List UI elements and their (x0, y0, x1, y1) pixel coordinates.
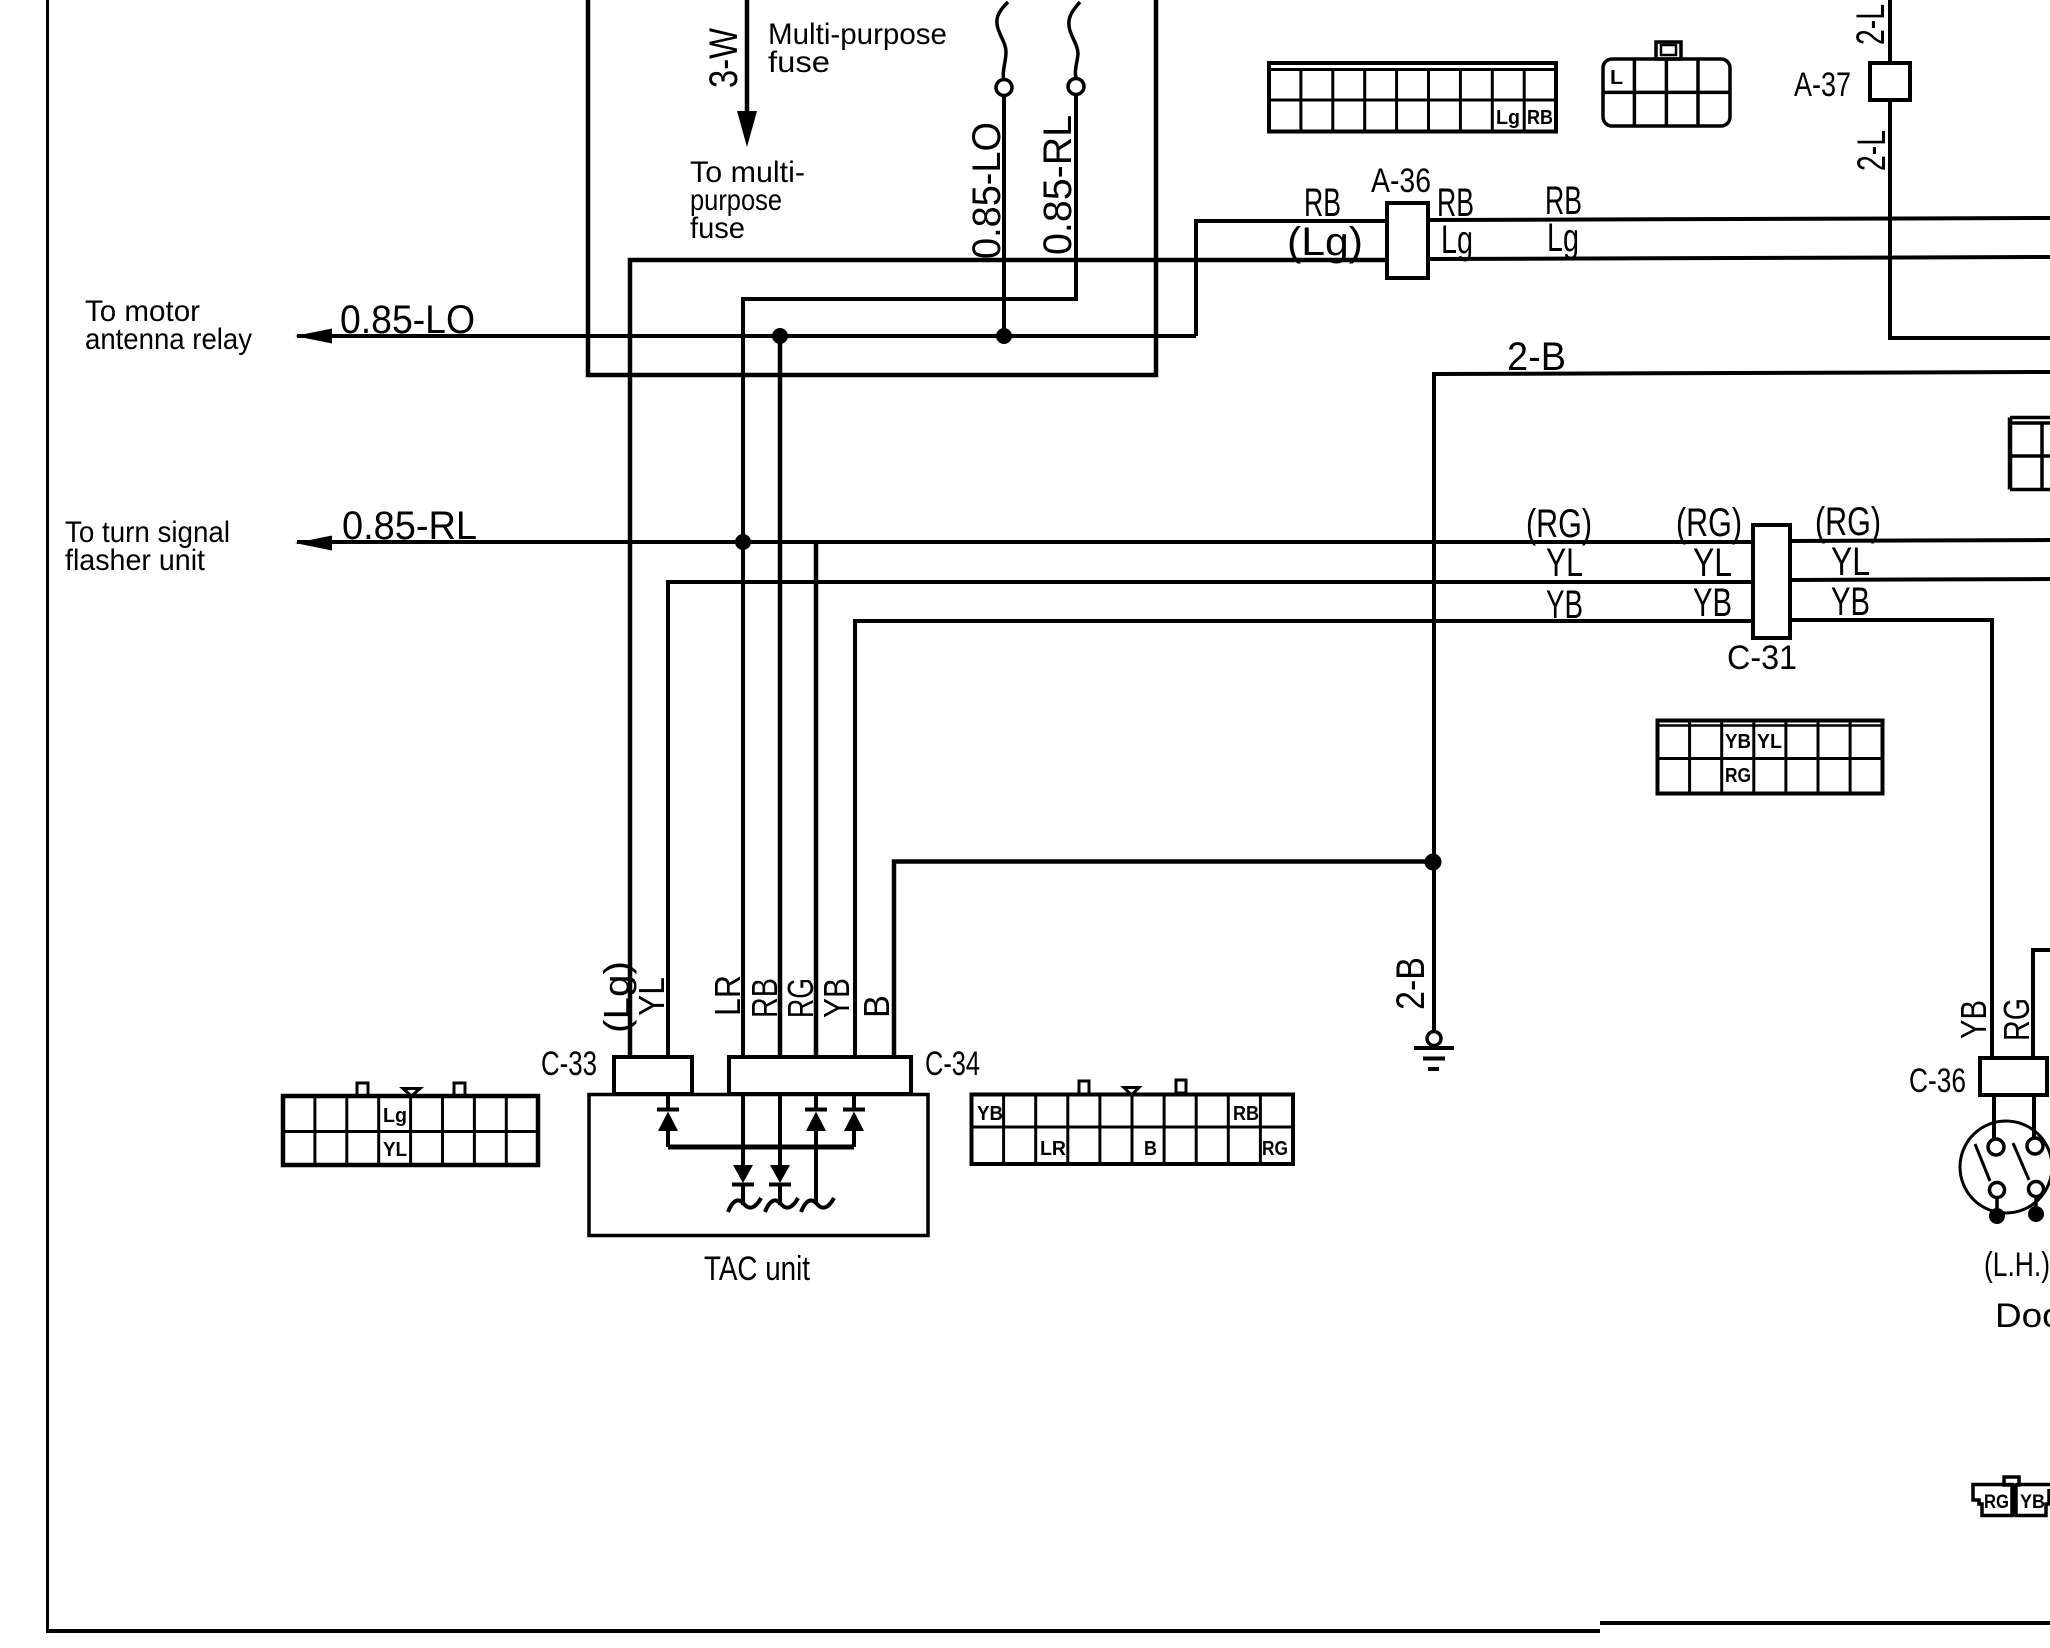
svg-text:C-34: C-34 (925, 1045, 980, 1083)
svg-text:C-33: C-33 (541, 1045, 597, 1083)
connector A-36 (1387, 203, 1428, 278)
svg-text:RG: RG (1996, 998, 2037, 1041)
svg-text:3-W: 3-W (702, 28, 746, 88)
svg-text:YB: YB (1725, 731, 1751, 753)
wire 0.85-LO horizontal to motor antenna relay (297, 334, 1196, 338)
page border left (46, 0, 49, 1632)
diode D3 (YB, up) (843, 1094, 865, 1147)
svg-text:YL: YL (383, 1139, 407, 1161)
svg-text:YL: YL (1546, 541, 1583, 585)
wire 2-L below A-37 (1890, 100, 2050, 338)
connector small RG/YB (bottom right) (1973, 1477, 2050, 1516)
wire 0.85-RL vertical and jog left (743, 95, 1076, 1057)
svg-text:YB: YB (1693, 581, 1732, 625)
svg-text:(RG): (RG) (1815, 500, 1881, 544)
svg-text:Lg: Lg (383, 1105, 407, 1127)
svg-text:A-36: A-36 (1371, 162, 1431, 200)
svg-text:0.85-RL: 0.85-RL (1036, 115, 1080, 255)
wire 0.85-LO fuse tail (wavy) (997, 2, 1008, 78)
door switch stems and dots (1995, 1197, 1999, 1211)
svg-text:Door: Door (1995, 1297, 2050, 1335)
door switch circle (1960, 1121, 2050, 1213)
wire 2-B horizontal to B pin (894, 862, 1434, 1058)
arrow to motor antenna relay (295, 329, 332, 344)
svg-text:Lg: Lg (1547, 216, 1579, 260)
connector C-33 (614, 1057, 692, 1094)
diode D4 (LR, down) (728, 1094, 761, 1212)
svg-text:YB: YB (1831, 580, 1870, 624)
svg-text:L: L (1610, 67, 1623, 89)
svg-text:2-L: 2-L (1849, 4, 1893, 45)
svg-text:LR: LR (1040, 1138, 1067, 1160)
svg-text:fuse: fuse (768, 46, 830, 79)
svg-text:Lg: Lg (1441, 218, 1473, 262)
svg-text:RB: RB (1527, 107, 1553, 129)
connector grid right edge (partial) (2010, 418, 2050, 490)
wire 0.85-LO vertical (1002, 96, 1006, 336)
connector C-34 (729, 1057, 911, 1094)
wire RB vertical to C-34 (778, 336, 783, 1057)
wire YL horizontal (668, 582, 1753, 1057)
wire 0.85-RL fuse tail (wavy) (1069, 2, 1080, 78)
svg-text:TAC unit: TAC unit (704, 1250, 810, 1288)
junction dot 2-B (1425, 854, 1442, 871)
wire RB riser to A-36 (1196, 221, 1387, 336)
svg-text:YB: YB (977, 1103, 1003, 1125)
junction dot 0.85-LO (996, 328, 1012, 344)
wire YB from C-31 down to C-36 (1790, 620, 1992, 1058)
connector rounded (top, L) (1603, 42, 1730, 126)
wire 3-W feed U-loop (588, 0, 1156, 375)
svg-text:RB: RB (1304, 181, 1341, 225)
connector C-36 (1980, 1058, 2047, 1095)
svg-text:LR: LR (707, 975, 748, 1016)
wire 2-B down to ground (1432, 861, 1436, 1031)
svg-text:2-B: 2-B (1389, 957, 1433, 1010)
wire RB from A-36 to right edge (1428, 218, 2050, 220)
svg-text:YB: YB (816, 978, 857, 1018)
wire (RG)/0.85-RL horizontal (297, 540, 1753, 544)
TAC unit box (589, 1095, 928, 1236)
svg-text:2-B: 2-B (1507, 335, 1566, 379)
wire (Lg) horizontal to A-36 (630, 260, 1387, 1057)
connector grid top (2x9) (1269, 63, 1556, 132)
wire diode bus (668, 1145, 854, 1150)
svg-text:RB: RB (744, 978, 785, 1018)
svg-text:Lg: Lg (1496, 107, 1520, 129)
svg-text:0.85-LO: 0.85-LO (965, 122, 1009, 259)
svg-text:YL: YL (1757, 731, 1782, 753)
svg-text:(RG): (RG) (1526, 502, 1592, 546)
door switch contact circles (1988, 1139, 2004, 1155)
svg-text:0.85-LO: 0.85-LO (340, 298, 475, 342)
svg-text:2-L: 2-L (1850, 130, 1894, 171)
svg-text:flasher unit: flasher unit (65, 544, 206, 577)
door switch pins from C-36 (1992, 1095, 1996, 1139)
terminal circle 0.85-LO (996, 80, 1012, 96)
svg-text:C-36: C-36 (1909, 1062, 1966, 1100)
wire 3-W arrow to multi-purpose fuse (745, 0, 750, 113)
connector C-31 pin grid (2x7) (1658, 721, 1883, 794)
svg-text:fuse: fuse (690, 212, 745, 245)
svg-text:RG: RG (1262, 1138, 1288, 1160)
svg-text:A-37: A-37 (1794, 66, 1851, 104)
svg-text:B: B (856, 995, 897, 1018)
arrow to turn signal flasher unit (295, 536, 332, 551)
wire 2-L above A-37 (1888, 0, 1892, 63)
wire RG squiggle end (801, 1198, 834, 1212)
page border bottom (46, 1629, 1600, 1633)
svg-text:YB: YB (1953, 1000, 1994, 1039)
svg-text:(RG): (RG) (1676, 501, 1742, 545)
wire YB horizontal (855, 621, 1753, 1057)
svg-text:RG: RG (1725, 765, 1751, 787)
diode D5 (RB, down) (765, 1094, 798, 1212)
junction dot RB feed (772, 328, 788, 344)
svg-text:antenna relay: antenna relay (85, 323, 252, 356)
svg-text:RG: RG (780, 978, 821, 1018)
diode D1 (YL, up) (657, 1094, 679, 1147)
svg-text:YL: YL (1831, 540, 1870, 584)
wire Lg from A-36 to right edge (1428, 257, 2050, 259)
junction dot LR (735, 534, 751, 550)
svg-text:YL: YL (1693, 541, 1732, 585)
svg-text:YL: YL (631, 977, 672, 1016)
connector A-37 (1870, 63, 1910, 100)
wire 2-B top horizontal (1434, 372, 2050, 861)
connector C-31 (1753, 525, 1790, 638)
ground (1427, 1032, 1441, 1046)
svg-text:RB: RB (1233, 1103, 1259, 1125)
svg-text:RG: RG (1984, 1492, 2009, 1513)
svg-text:C-31: C-31 (1727, 639, 1797, 677)
diode D2 (RG, up) (805, 1094, 827, 1202)
terminal circle 0.85-RL (1068, 79, 1084, 95)
door switch blades (1975, 1144, 1990, 1181)
wire RG vertical to C-34 (814, 542, 819, 1057)
svg-text:0.85-RL: 0.85-RL (342, 504, 477, 548)
wire RG right to C-36 (2033, 950, 2050, 1058)
connector grid bottom-left (2x8) (283, 1083, 538, 1165)
connector C-34 pin grid (2x10) (972, 1080, 1294, 1164)
svg-text:B: B (1144, 1138, 1157, 1160)
svg-text:YB: YB (1546, 583, 1583, 627)
svg-text:YB: YB (2020, 1492, 2045, 1513)
svg-text:(L.H.): (L.H.) (1984, 1246, 2050, 1284)
svg-text:(Lg): (Lg) (1287, 220, 1363, 264)
